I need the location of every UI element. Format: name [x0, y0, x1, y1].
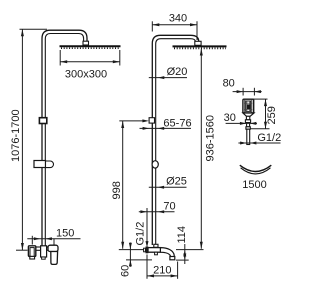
svg-text:Ø25: Ø25 [166, 175, 187, 187]
pipe front view [152, 35, 198, 245]
wall bracket [149, 118, 154, 123]
dim 60 [129, 243, 131, 267]
ext line bottom left [16, 249, 28, 251]
dim 80 [233, 91, 262, 93]
svg-text:Ø20: Ø20 [167, 66, 188, 78]
hand shower head [243, 99, 254, 113]
svg-text:340: 340 [169, 13, 187, 25]
clamp square on pipe [39, 118, 46, 124]
svg-text:70: 70 [163, 201, 175, 213]
dim 114 [184, 244, 186, 264]
hose symbol [240, 165, 271, 171]
dim G1/2 right [238, 142, 280, 144]
pipe left view [42, 30, 87, 246]
ext line top left [20, 28, 48, 30]
svg-text:210: 210 [153, 264, 171, 276]
svg-text:114: 114 [176, 226, 188, 244]
dim 998 [122, 121, 124, 249]
riser connector above mixer [154, 244, 158, 247]
svg-text:G1/2: G1/2 [257, 132, 281, 144]
dim 340 [151, 21, 153, 31]
fitting block left view [83, 41, 89, 45]
svg-text:80: 80 [223, 78, 235, 90]
svg-text:G1/2: G1/2 [134, 222, 146, 246]
dim 150 [27, 238, 80, 240]
svg-text:150: 150 [56, 227, 74, 239]
leader O20 [149, 77, 187, 79]
svg-text:936-1560: 936-1560 [205, 115, 217, 162]
connector ring on pipe [152, 161, 158, 168]
G1/2 pointer line [146, 208, 148, 245]
leader O25 [149, 186, 187, 188]
shower head side view [60, 45, 121, 47]
shower head front view [173, 45, 227, 47]
dim 300x300 [59, 50, 61, 66]
svg-text:65-76: 65-76 [163, 117, 191, 129]
dim 210 [146, 255, 148, 279]
slider bracket [34, 161, 46, 168]
ext 998 top with arrow [119, 120, 143, 122]
svg-text:60: 60 [120, 265, 132, 277]
svg-text:259: 259 [266, 106, 278, 124]
mixer side view [34, 247, 50, 250]
fitting block front view [195, 41, 201, 45]
dim 259 [253, 98, 268, 100]
dim 1076-1700 vertical line [21, 29, 23, 250]
dim 70 [139, 211, 175, 213]
svg-text:1500: 1500 [242, 179, 266, 191]
dim 30 [226, 122, 257, 124]
svg-text:300x300: 300x300 [65, 69, 107, 81]
svg-text:30: 30 [224, 112, 236, 124]
svg-text:1076-1700: 1076-1700 [10, 109, 22, 162]
svg-text:998: 998 [111, 181, 123, 199]
dim 65-76 [140, 127, 192, 129]
mixer front view [148, 248, 161, 253]
dim 936-1560 [200, 49, 202, 249]
hand shower taper [243, 113, 254, 116]
handle stack [246, 116, 249, 120]
